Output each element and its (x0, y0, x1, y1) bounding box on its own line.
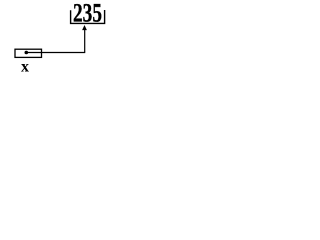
pointer box x (15, 49, 42, 57)
svg-text:235: 235 (73, 0, 102, 28)
background (0, 0, 113, 76)
svg-text:x: x (21, 59, 29, 76)
wire vertical shaft (84, 30, 86, 53)
arrowhead (82, 25, 87, 30)
wire horizontal from pointer dot (26, 52, 85, 54)
value cell 235 bracket (71, 10, 105, 23)
pointer dot (25, 51, 29, 55)
